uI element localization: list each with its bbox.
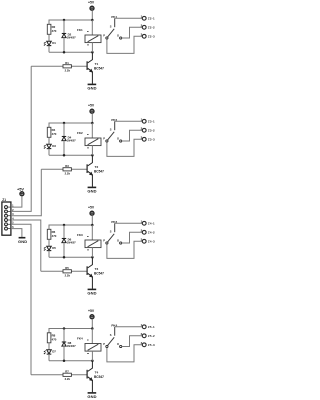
transistor T4 BC547 <box>87 361 105 392</box>
LED D3 <box>44 144 56 149</box>
LED D5 <box>44 246 56 251</box>
svg-text:FK1: FK1 <box>77 28 83 32</box>
terminal Z4-2 pin 2 <box>141 228 155 234</box>
+5V supply (block T3) <box>88 206 95 216</box>
svg-text:D3: D3 <box>52 144 56 148</box>
junction rail/diode <box>63 224 66 227</box>
wire +5V to rail <box>91 10 93 20</box>
svg-text:P: P <box>103 137 105 141</box>
junction node/diode <box>63 154 66 157</box>
wire top rail <box>49 329 92 333</box>
svg-text:BC547: BC547 <box>94 170 104 174</box>
wire base line <box>41 168 86 170</box>
junction rail/coil <box>91 19 94 22</box>
svg-text:Z4-1: Z4-1 <box>148 222 155 226</box>
transistor T1 BC547 <box>87 52 105 83</box>
terminal Z2-3 pin 3 <box>141 32 155 38</box>
terminal Z3-2 pin 2 <box>141 126 155 132</box>
svg-text:2.2k: 2.2k <box>65 171 71 175</box>
svg-text:2.2k: 2.2k <box>65 377 71 381</box>
svg-text:Z5-1: Z5-1 <box>148 325 155 329</box>
svg-text:D7: D7 <box>52 350 56 354</box>
diode D2 1N4007 <box>62 20 76 52</box>
svg-text:GND: GND <box>87 86 96 91</box>
svg-text:GND: GND <box>87 291 96 296</box>
diode D8 1N4007 <box>62 329 76 361</box>
resistor R7 2.2k <box>63 370 71 381</box>
junction node/diode <box>63 360 66 363</box>
svg-text:GND: GND <box>87 189 96 194</box>
svg-text:P: P <box>103 34 105 38</box>
svg-text:FK2: FK2 <box>77 131 83 135</box>
wire LED-node <box>48 251 50 258</box>
svg-text:470: 470 <box>52 234 57 238</box>
svg-text:R1: R1 <box>65 61 69 65</box>
wire base line <box>31 65 86 67</box>
svg-text:+5V: +5V <box>17 187 24 192</box>
terminal Z5-1 pin 1 <box>141 323 155 329</box>
wire +5V to rail <box>91 113 93 123</box>
wire top rail <box>49 20 92 24</box>
svg-text:Z1: Z1 <box>2 198 6 202</box>
transistor T2 BC547 <box>87 155 105 186</box>
relay contact PK3 <box>103 220 122 244</box>
relay contact PK1 <box>103 15 122 39</box>
wire NC to terminal 1 <box>115 326 143 328</box>
connector pin 3 <box>5 212 15 217</box>
connector pin 2 <box>5 208 15 213</box>
svg-text:Z2-1: Z2-1 <box>148 17 155 21</box>
wire resistor-LED <box>48 34 50 41</box>
junction rail/diode <box>63 122 66 125</box>
wire NC to terminal 1 <box>115 222 143 224</box>
wire NO to terminal 2 <box>122 232 143 243</box>
svg-text:Z2-3: Z2-3 <box>148 35 155 39</box>
svg-text:1N4007: 1N4007 <box>67 241 76 244</box>
wire resistor-LED <box>48 239 50 246</box>
wire NO to terminal 2 <box>122 27 143 38</box>
resistor R2 470 <box>47 24 57 34</box>
svg-text:1N4007: 1N4007 <box>67 345 76 348</box>
ground <box>87 289 96 295</box>
svg-text:1N4007: 1N4007 <box>67 139 76 142</box>
svg-text:BC547: BC547 <box>94 67 104 71</box>
svg-text:FK4: FK4 <box>77 336 83 340</box>
wire collector node <box>49 256 92 258</box>
svg-text:S: S <box>110 333 112 337</box>
connector pin 4 <box>5 216 15 221</box>
connector pin 1 <box>5 204 15 209</box>
ground <box>87 84 96 90</box>
wire pin2 to block1 input <box>11 66 31 211</box>
terminal Z2-2 pin 2 <box>141 23 155 29</box>
wire NO to terminal 2 <box>122 130 143 141</box>
junction node/diode <box>63 256 66 259</box>
svg-text:Z5-3: Z5-3 <box>148 343 155 347</box>
ground <box>87 393 96 399</box>
wire LED-node <box>48 149 50 156</box>
connector Z1 <box>2 198 14 235</box>
junction rail/coil <box>91 224 94 227</box>
terminal Z3-1 pin 1 <box>141 117 155 123</box>
junction node/coil <box>91 360 94 363</box>
relay contact PK2 <box>103 118 122 142</box>
svg-text:470: 470 <box>52 132 57 136</box>
+5V supply (block T1) <box>88 1 95 11</box>
svg-text:O: O <box>117 239 119 243</box>
wire resistor-LED <box>48 137 50 144</box>
wire pin3 to block2 input <box>11 169 41 215</box>
LED D7 <box>44 350 56 355</box>
connector pin 5 <box>5 221 15 226</box>
terminal Z4-1 pin 1 <box>141 219 155 225</box>
svg-text:P: P <box>103 342 105 346</box>
svg-text:S: S <box>110 230 112 234</box>
svg-text:470: 470 <box>52 29 57 33</box>
svg-text:BC547: BC547 <box>94 272 104 276</box>
terminal Z2-1 pin 1 <box>141 14 155 20</box>
diode D4 1N4007 <box>62 123 76 155</box>
svg-text:Z4-3: Z4-3 <box>148 240 155 244</box>
diode D6 1N4007 <box>62 225 76 257</box>
svg-text:S: S <box>110 25 112 29</box>
wire LED-node <box>48 46 50 53</box>
relay coil FK3 <box>77 225 101 257</box>
svg-text:P: P <box>103 239 105 243</box>
wire pin4 to block3 input <box>11 220 41 271</box>
junction rail/diode <box>63 19 66 22</box>
junction rail/coil <box>91 122 94 125</box>
wire top rail <box>49 123 92 127</box>
junction node/coil <box>91 256 94 259</box>
svg-text:+5V: +5V <box>88 206 95 210</box>
wire NO to terminal 2 <box>122 336 143 347</box>
resistor R8 470 <box>47 333 57 343</box>
wire common to terminal 3 <box>107 241 142 258</box>
wire top rail <box>49 225 92 229</box>
resistor R4 470 <box>47 127 57 137</box>
svg-text:Z5-2: Z5-2 <box>148 334 155 338</box>
wire resistor-LED <box>48 343 50 350</box>
wire common to terminal 3 <box>107 345 142 362</box>
resistor R6 470 <box>47 229 57 239</box>
wire common to terminal 3 <box>107 36 142 53</box>
junction rail/coil <box>91 327 94 330</box>
relay coil FK2 <box>77 123 101 155</box>
svg-text:O: O <box>117 34 119 38</box>
resistor R3 2.2k <box>63 164 71 175</box>
svg-text:GND: GND <box>18 239 27 244</box>
wire NC to terminal 1 <box>115 120 143 122</box>
LED D1 <box>44 41 56 46</box>
wire base line <box>41 270 87 272</box>
wire collector node <box>49 51 92 53</box>
svg-text:FK3: FK3 <box>77 233 83 237</box>
relay contact PK4 <box>103 323 122 347</box>
svg-text:1N4007: 1N4007 <box>67 36 76 39</box>
svg-text:D1: D1 <box>52 41 56 45</box>
junction node/diode <box>63 51 66 54</box>
wire pin5 to block4 input <box>11 224 31 374</box>
svg-text:Z2-2: Z2-2 <box>148 26 155 30</box>
wire pin1 to +5V <box>11 196 22 207</box>
wire common to terminal 3 <box>107 139 142 156</box>
wire NC to terminal 1 <box>115 17 143 19</box>
+5V supply (block T4) <box>88 309 95 319</box>
ground at connector <box>18 238 27 244</box>
+5V supply at connector <box>17 187 24 196</box>
wire pin6 to ground <box>11 229 22 238</box>
terminal Z5-3 pin 3 <box>141 341 155 347</box>
svg-text:GND: GND <box>87 394 96 399</box>
svg-text:BC547: BC547 <box>94 375 104 379</box>
ground <box>87 187 96 193</box>
terminal Z4-3 pin 3 <box>141 237 155 243</box>
svg-text:+5V: +5V <box>88 104 95 108</box>
svg-text:O: O <box>117 342 119 346</box>
junction node/coil <box>91 51 94 54</box>
resistor R5 2.2k <box>63 266 71 277</box>
resistor R1 2.2k <box>63 61 71 72</box>
svg-text:470: 470 <box>52 338 57 342</box>
svg-text:Z3-1: Z3-1 <box>148 120 155 124</box>
wire +5V to rail <box>91 215 93 225</box>
junction node/coil <box>91 154 94 157</box>
wire LED-node <box>48 354 50 361</box>
terminal Z3-3 pin 3 <box>141 135 155 141</box>
+5V supply (block T2) <box>88 104 95 114</box>
svg-text:R5: R5 <box>65 266 69 270</box>
svg-text:D5: D5 <box>52 246 56 250</box>
terminal Z5-2 pin 2 <box>141 332 155 338</box>
svg-text:O: O <box>117 137 119 141</box>
wire collector node <box>49 360 92 362</box>
svg-text:2.2k: 2.2k <box>65 273 71 277</box>
svg-text:Z4-2: Z4-2 <box>148 231 155 235</box>
svg-text:R7: R7 <box>65 370 69 374</box>
svg-text:Z3-3: Z3-3 <box>148 138 155 142</box>
svg-text:+5V: +5V <box>88 309 95 313</box>
relay coil FK4 <box>77 329 101 361</box>
transistor T3 BC547 <box>87 257 105 288</box>
svg-text:2.2k: 2.2k <box>65 68 71 72</box>
svg-text:Z3-2: Z3-2 <box>148 129 155 133</box>
junction rail/diode <box>63 327 66 330</box>
wire +5V to rail <box>91 319 93 329</box>
svg-text:S: S <box>110 128 112 132</box>
svg-text:+5V: +5V <box>88 1 95 5</box>
connector pin 6 <box>5 225 15 230</box>
relay coil FK1 <box>77 20 101 52</box>
wire collector node <box>49 154 92 156</box>
wire base line <box>31 374 87 376</box>
svg-text:R3: R3 <box>65 164 69 168</box>
